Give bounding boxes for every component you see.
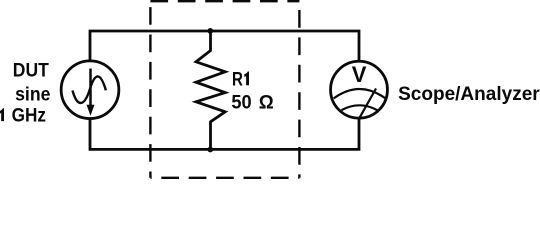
label GHz xyxy=(12,103,46,125)
label R (of R1) xyxy=(232,68,243,91)
dashed box top edge (50-ohm load boundary) xyxy=(150,0,299,2)
svg-text:V: V xyxy=(352,62,367,87)
label 1 (of R1) xyxy=(244,72,249,86)
svg-text:GHz: GHz xyxy=(12,103,46,125)
junction dot bottom xyxy=(207,147,213,153)
svg-text:R: R xyxy=(232,68,243,91)
source V1 sine symbol xyxy=(73,76,106,103)
voltmeter U1 needle xyxy=(360,89,376,118)
label ohm symbol xyxy=(259,92,274,114)
voltmeter U1 circle (scope input) xyxy=(331,61,388,118)
voltmeter U1 scale arc lower xyxy=(342,105,378,110)
wire top xyxy=(90,31,359,62)
wire bottom xyxy=(90,118,359,149)
junction dot top xyxy=(207,28,213,34)
dashed box bottom edge xyxy=(150,177,299,179)
label DUT xyxy=(13,58,50,80)
svg-text:Scope/Analyzer: Scope/Analyzer xyxy=(398,82,540,104)
resistor R1 xyxy=(196,31,225,149)
label 1 (of 1 GHz) xyxy=(0,108,4,121)
label Scope/Analyzer xyxy=(398,82,540,104)
dashed box left edge xyxy=(149,1,151,178)
voltmeter U1 scale arc upper xyxy=(334,89,386,98)
dashed box right edge xyxy=(298,1,300,178)
svg-text:sine: sine xyxy=(15,83,50,105)
source V1 circle (DUT sine source) xyxy=(61,61,119,119)
source V1 arrow (downward) xyxy=(87,69,95,116)
label sine xyxy=(15,83,50,105)
svg-text:50: 50 xyxy=(231,92,251,114)
label 50 xyxy=(231,92,251,114)
svg-text:Ω: Ω xyxy=(259,92,274,114)
svg-text:DUT: DUT xyxy=(13,58,50,80)
